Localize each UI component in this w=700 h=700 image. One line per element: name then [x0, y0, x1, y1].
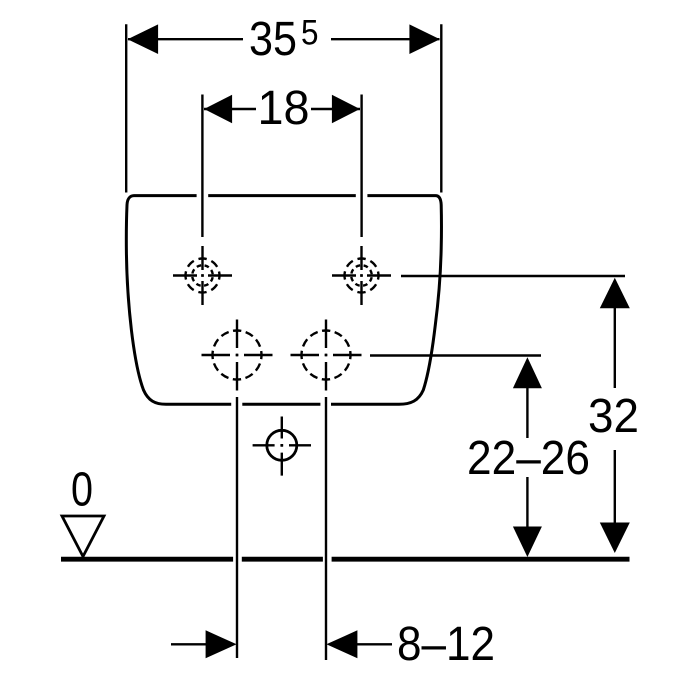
dimension 32: top arrowhead	[600, 278, 630, 309]
svg-text:35: 35	[249, 13, 297, 66]
water supply hole: vertical centerline	[281, 417, 283, 476]
lower-left hole: fixing centre line down to floor	[236, 397, 238, 658]
upper-right hole: inner dashed circle	[351, 265, 372, 286]
upper-right hole: outer dashed circle	[345, 259, 379, 293]
lower-right hole: dashed circle	[302, 331, 351, 380]
upper-left hole: vertical centerline	[201, 246, 203, 305]
cistern body outline	[126, 196, 441, 405]
gap in top edge at left 18-extension line	[197, 193, 209, 198]
svg-text:0: 0	[71, 464, 93, 517]
dimension 22-26: vertical line upper segment	[526, 385, 528, 438]
lower-left hole: dashed circle	[213, 331, 262, 380]
upper-right hole: horizontal centerline	[332, 274, 391, 276]
dimension 18: right arrowhead	[332, 95, 360, 124]
gap in bottom edge at left fixing line	[231, 402, 242, 408]
extension line from upper-right hole to 32 dimension	[401, 275, 625, 277]
dimension 18: left arrowhead	[204, 95, 232, 124]
svg-text:5: 5	[301, 14, 319, 53]
lower-right hole: fixing centre line down to floor	[325, 397, 327, 660]
dimension 8-12: left arrowhead	[206, 630, 237, 658]
extension line from lower-right hole to 22-26 dimension	[370, 354, 541, 356]
dimension 35.5: right extension line	[440, 24, 442, 192]
upper-right hole: vertical centerline	[360, 246, 362, 305]
lower-right hole: vertical centerline	[325, 320, 327, 391]
gap in top edge at right 18-extension line	[356, 193, 368, 198]
dimension 18: right extension line	[360, 95, 362, 238]
dimension 18: dimension line right segment	[311, 108, 360, 110]
dimension 18: dimension line left segment	[204, 108, 256, 110]
dimension 35.5: right arrowhead	[409, 24, 440, 54]
svg-text:8–12: 8–12	[397, 618, 495, 671]
datum zero triangle	[62, 516, 104, 557]
dimension 32: vertical line lower segment	[614, 450, 616, 528]
dimension 32: bottom arrowhead	[600, 523, 630, 554]
dimension 18: left extension line	[201, 95, 203, 238]
upper-left hole: outer dashed circle	[186, 259, 220, 293]
dimension 35.5: left arrowhead	[128, 24, 159, 54]
lower-left hole: vertical centerline	[236, 320, 238, 391]
svg-text:18: 18	[258, 82, 310, 135]
water supply hole: solid circle	[267, 430, 297, 460]
svg-text:32: 32	[588, 390, 639, 443]
dimension 35.5: dimension line right segment	[331, 38, 440, 40]
dimension 8-12: right tail line	[356, 643, 392, 645]
dimension 32: vertical line upper segment	[614, 303, 616, 388]
dimension 8-12: left tail line	[171, 643, 210, 645]
water supply hole: horizontal centerline	[253, 444, 311, 446]
dimension 22-26: vertical line lower segment	[526, 477, 528, 530]
dimension 8-12: right arrowhead	[326, 630, 357, 658]
upper-left hole: horizontal centerline	[173, 274, 232, 276]
dimension 35.5: left extension line	[125, 24, 127, 192]
upper-left hole: inner dashed circle	[192, 265, 213, 286]
gap in bottom edge at right fixing line	[320, 402, 331, 408]
dimension 22-26: top arrowhead	[513, 357, 542, 388]
floor line	[61, 557, 630, 562]
svg-text:22–26: 22–26	[467, 432, 590, 485]
lower-right hole: horizontal centerline	[291, 354, 362, 356]
dimension 35.5: dimension line left segment	[128, 38, 243, 40]
lower-left hole: horizontal centerline	[202, 354, 273, 356]
dimension 22-26: bottom arrowhead	[513, 527, 542, 558]
